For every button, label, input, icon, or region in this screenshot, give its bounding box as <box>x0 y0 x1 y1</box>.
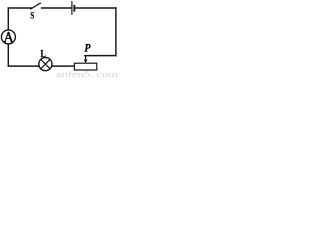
svg-text:anfen5. com: anfen5. com <box>56 70 119 77</box>
wire lamp to rheostat <box>52 65 75 67</box>
svg-text:S: S <box>30 11 34 21</box>
battery short thick plate <box>73 5 75 12</box>
lamp X stroke 1 <box>41 59 50 68</box>
lamp L circle <box>39 58 52 71</box>
svg-text:P: P <box>84 42 90 55</box>
battery long plate <box>71 1 73 15</box>
wire right side down <box>115 8 117 56</box>
ammeter A circle <box>1 30 15 44</box>
wire battery to top-right corner <box>75 7 116 9</box>
rheostat P body <box>74 63 96 70</box>
switch S <box>31 3 41 9</box>
wire to rheostat wiper <box>85 55 116 57</box>
wire top-left to switch <box>8 7 31 9</box>
wire bottom-left to lamp <box>8 65 39 67</box>
wire left side lower <box>7 44 9 66</box>
svg-text:L: L <box>41 48 46 59</box>
lamp X stroke 2 <box>41 59 50 68</box>
rheostat P wiper arrowhead <box>84 60 88 64</box>
ammeter label A <box>4 32 13 42</box>
rheostat P wiper stub <box>85 56 87 60</box>
wire switch to battery <box>42 7 72 9</box>
wire left side upper <box>7 8 9 30</box>
